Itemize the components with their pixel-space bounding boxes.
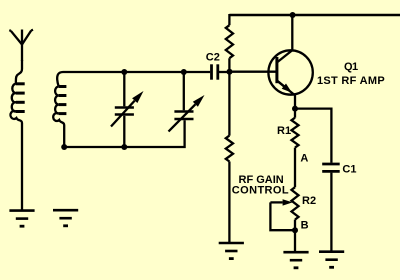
svg-text:1ST RF AMP: 1ST RF AMP: [317, 75, 385, 87]
svg-text:Q1: Q1: [344, 61, 358, 73]
svg-text:B: B: [301, 220, 309, 232]
svg-text:CONTROL: CONTROL: [232, 185, 289, 197]
svg-text:A: A: [300, 153, 308, 165]
svg-text:C1: C1: [342, 163, 356, 175]
svg-text:R1: R1: [277, 125, 291, 137]
svg-text:C2: C2: [206, 52, 220, 64]
svg-text:R2: R2: [302, 195, 316, 207]
